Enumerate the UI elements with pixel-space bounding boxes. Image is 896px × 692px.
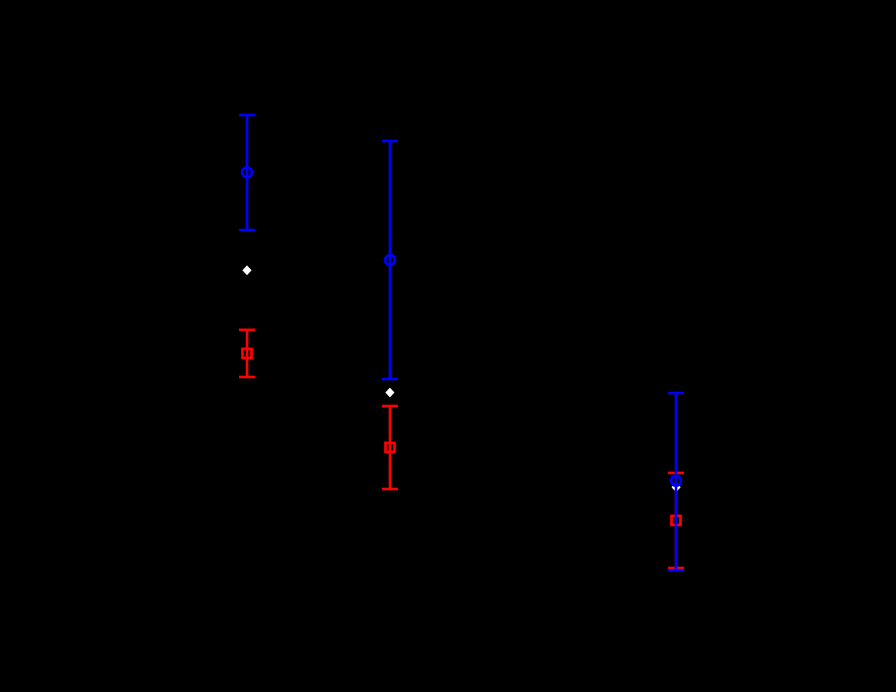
group 2 blue error bar top cap [382, 140, 398, 143]
group 1 red error bar top cap [239, 328, 255, 331]
group 1 blue error bar line [246, 115, 249, 230]
group 3 red square marker [672, 516, 681, 525]
group 2 red error bar line [389, 406, 392, 489]
group 3 red error bar bottom cap [668, 567, 684, 570]
group 1 blue circle marker [242, 167, 252, 177]
group 2 blue circle marker [385, 255, 395, 265]
group 2 blue error bar line [389, 141, 392, 379]
group 1 red square marker [243, 349, 252, 358]
group 2 blue error bar bottom cap [382, 378, 398, 381]
group 2 red error bar bottom cap [382, 488, 398, 491]
group 2 red error bar top cap [382, 405, 398, 408]
group 1 red error bar line [246, 330, 249, 377]
group 1 red error bar bottom cap [239, 376, 255, 379]
group 3 white diamond marker [672, 482, 681, 492]
group 2 white diamond marker [385, 388, 394, 398]
group 3 blue error bar line [675, 393, 678, 570]
group 1 white diamond marker [242, 265, 251, 275]
group 3 blue circle marker [671, 476, 681, 486]
group 3 red error bar top cap [668, 472, 684, 475]
group 1 blue error bar top cap [239, 114, 255, 117]
group 2 red square marker [386, 443, 395, 452]
group 3 blue error bar bottom cap [668, 569, 684, 572]
group 3 red error bar line [675, 473, 678, 568]
group 1 blue error bar bottom cap [239, 229, 255, 232]
group 3 blue error bar top cap [668, 392, 684, 395]
